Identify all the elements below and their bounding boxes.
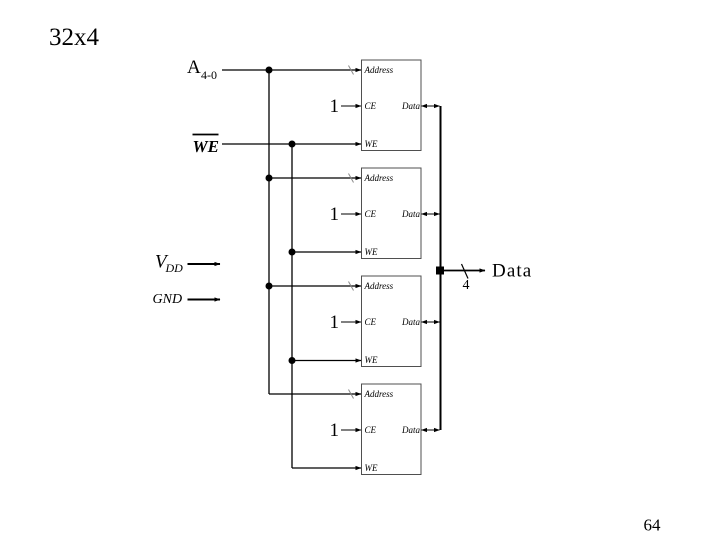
wire U2 Data to bus (bidirectional) (422, 213, 440, 215)
bus-width slash U4 address (349, 390, 354, 399)
bus-width slash Data (462, 264, 469, 279)
svg-text:Data: Data (492, 261, 532, 282)
svg-text:64: 64 (644, 516, 662, 535)
svg-text:CE: CE (365, 101, 377, 111)
wire 1 to U1 CE (341, 105, 361, 107)
label WE-bar (193, 135, 219, 157)
node Data tap junction (436, 267, 444, 275)
svg-text:4: 4 (463, 278, 470, 293)
svg-text:CE: CE (365, 425, 377, 435)
node WE bus junction 2 (289, 249, 296, 256)
wire address bus to U3 (269, 285, 361, 287)
bus-width slash U3 address (349, 282, 354, 291)
svg-text:WE: WE (365, 355, 378, 365)
wire U1 Data to bus (bidirectional) (422, 105, 440, 107)
wire WE bus to U3 (292, 360, 361, 362)
svg-text:WE: WE (193, 137, 219, 156)
wire VDD arrow (188, 263, 221, 265)
wire address bus vertical (268, 70, 270, 394)
svg-text:WE: WE (365, 247, 378, 257)
RAM chip U2 (362, 168, 422, 259)
svg-text:GND: GND (153, 292, 183, 307)
svg-text:CE: CE (365, 209, 377, 219)
svg-text:Data: Data (401, 425, 421, 435)
wire WE-bar to U1 WE (222, 143, 361, 145)
wire U4 Data to bus (bidirectional) (422, 429, 440, 431)
node WE bus junction 3 (289, 357, 296, 364)
svg-text:Address: Address (364, 389, 394, 399)
svg-text:32x4: 32x4 (49, 24, 100, 51)
node A bus junction 2 (266, 175, 273, 182)
label VDD (155, 252, 183, 276)
wire 1 to U4 CE (341, 429, 361, 431)
svg-text:WE: WE (365, 463, 378, 473)
svg-text:Data: Data (401, 101, 421, 111)
wire address bus to U2 (269, 177, 361, 179)
wire WE bus to U4 (292, 467, 361, 469)
wire 1 to U2 CE (341, 213, 361, 215)
wire Data tap to label (440, 270, 485, 272)
svg-text:A: A (187, 57, 201, 78)
wire data bus vertical (440, 106, 442, 430)
RAM chip U3 (362, 276, 422, 367)
wire 1 to U3 CE (341, 321, 361, 323)
svg-text:Address: Address (364, 281, 394, 291)
wire WE bus to U2 (292, 251, 361, 253)
svg-text:Address: Address (364, 65, 394, 75)
svg-text:Address: Address (364, 173, 394, 183)
svg-text:WE: WE (365, 139, 378, 149)
node A bus junction 1 (266, 67, 273, 74)
svg-text:4-0: 4-0 (201, 68, 217, 82)
node A bus junction 3 (266, 283, 273, 290)
svg-text:Data: Data (401, 317, 421, 327)
svg-text:Data: Data (401, 209, 421, 219)
RAM chip U4 (362, 384, 422, 475)
node WE bus junction 1 (289, 141, 296, 148)
svg-text:DD: DD (165, 261, 184, 275)
svg-text:CE: CE (365, 317, 377, 327)
wire U3 Data to bus (bidirectional) (422, 321, 440, 323)
bus-width slash U2 address (349, 174, 354, 183)
wire WE bus vertical (291, 144, 293, 468)
RAM chip U1 (362, 60, 422, 151)
svg-text:1: 1 (330, 96, 340, 117)
bus-width slash U1 address (349, 66, 354, 75)
svg-text:1: 1 (330, 420, 340, 441)
svg-text:1: 1 (330, 312, 340, 333)
wire GND arrow (188, 299, 221, 301)
svg-text:1: 1 (330, 204, 340, 225)
wire address bus to U4 (269, 393, 361, 395)
label A4-0 (187, 57, 217, 82)
wire A4-0 to U1 Address (222, 69, 361, 71)
